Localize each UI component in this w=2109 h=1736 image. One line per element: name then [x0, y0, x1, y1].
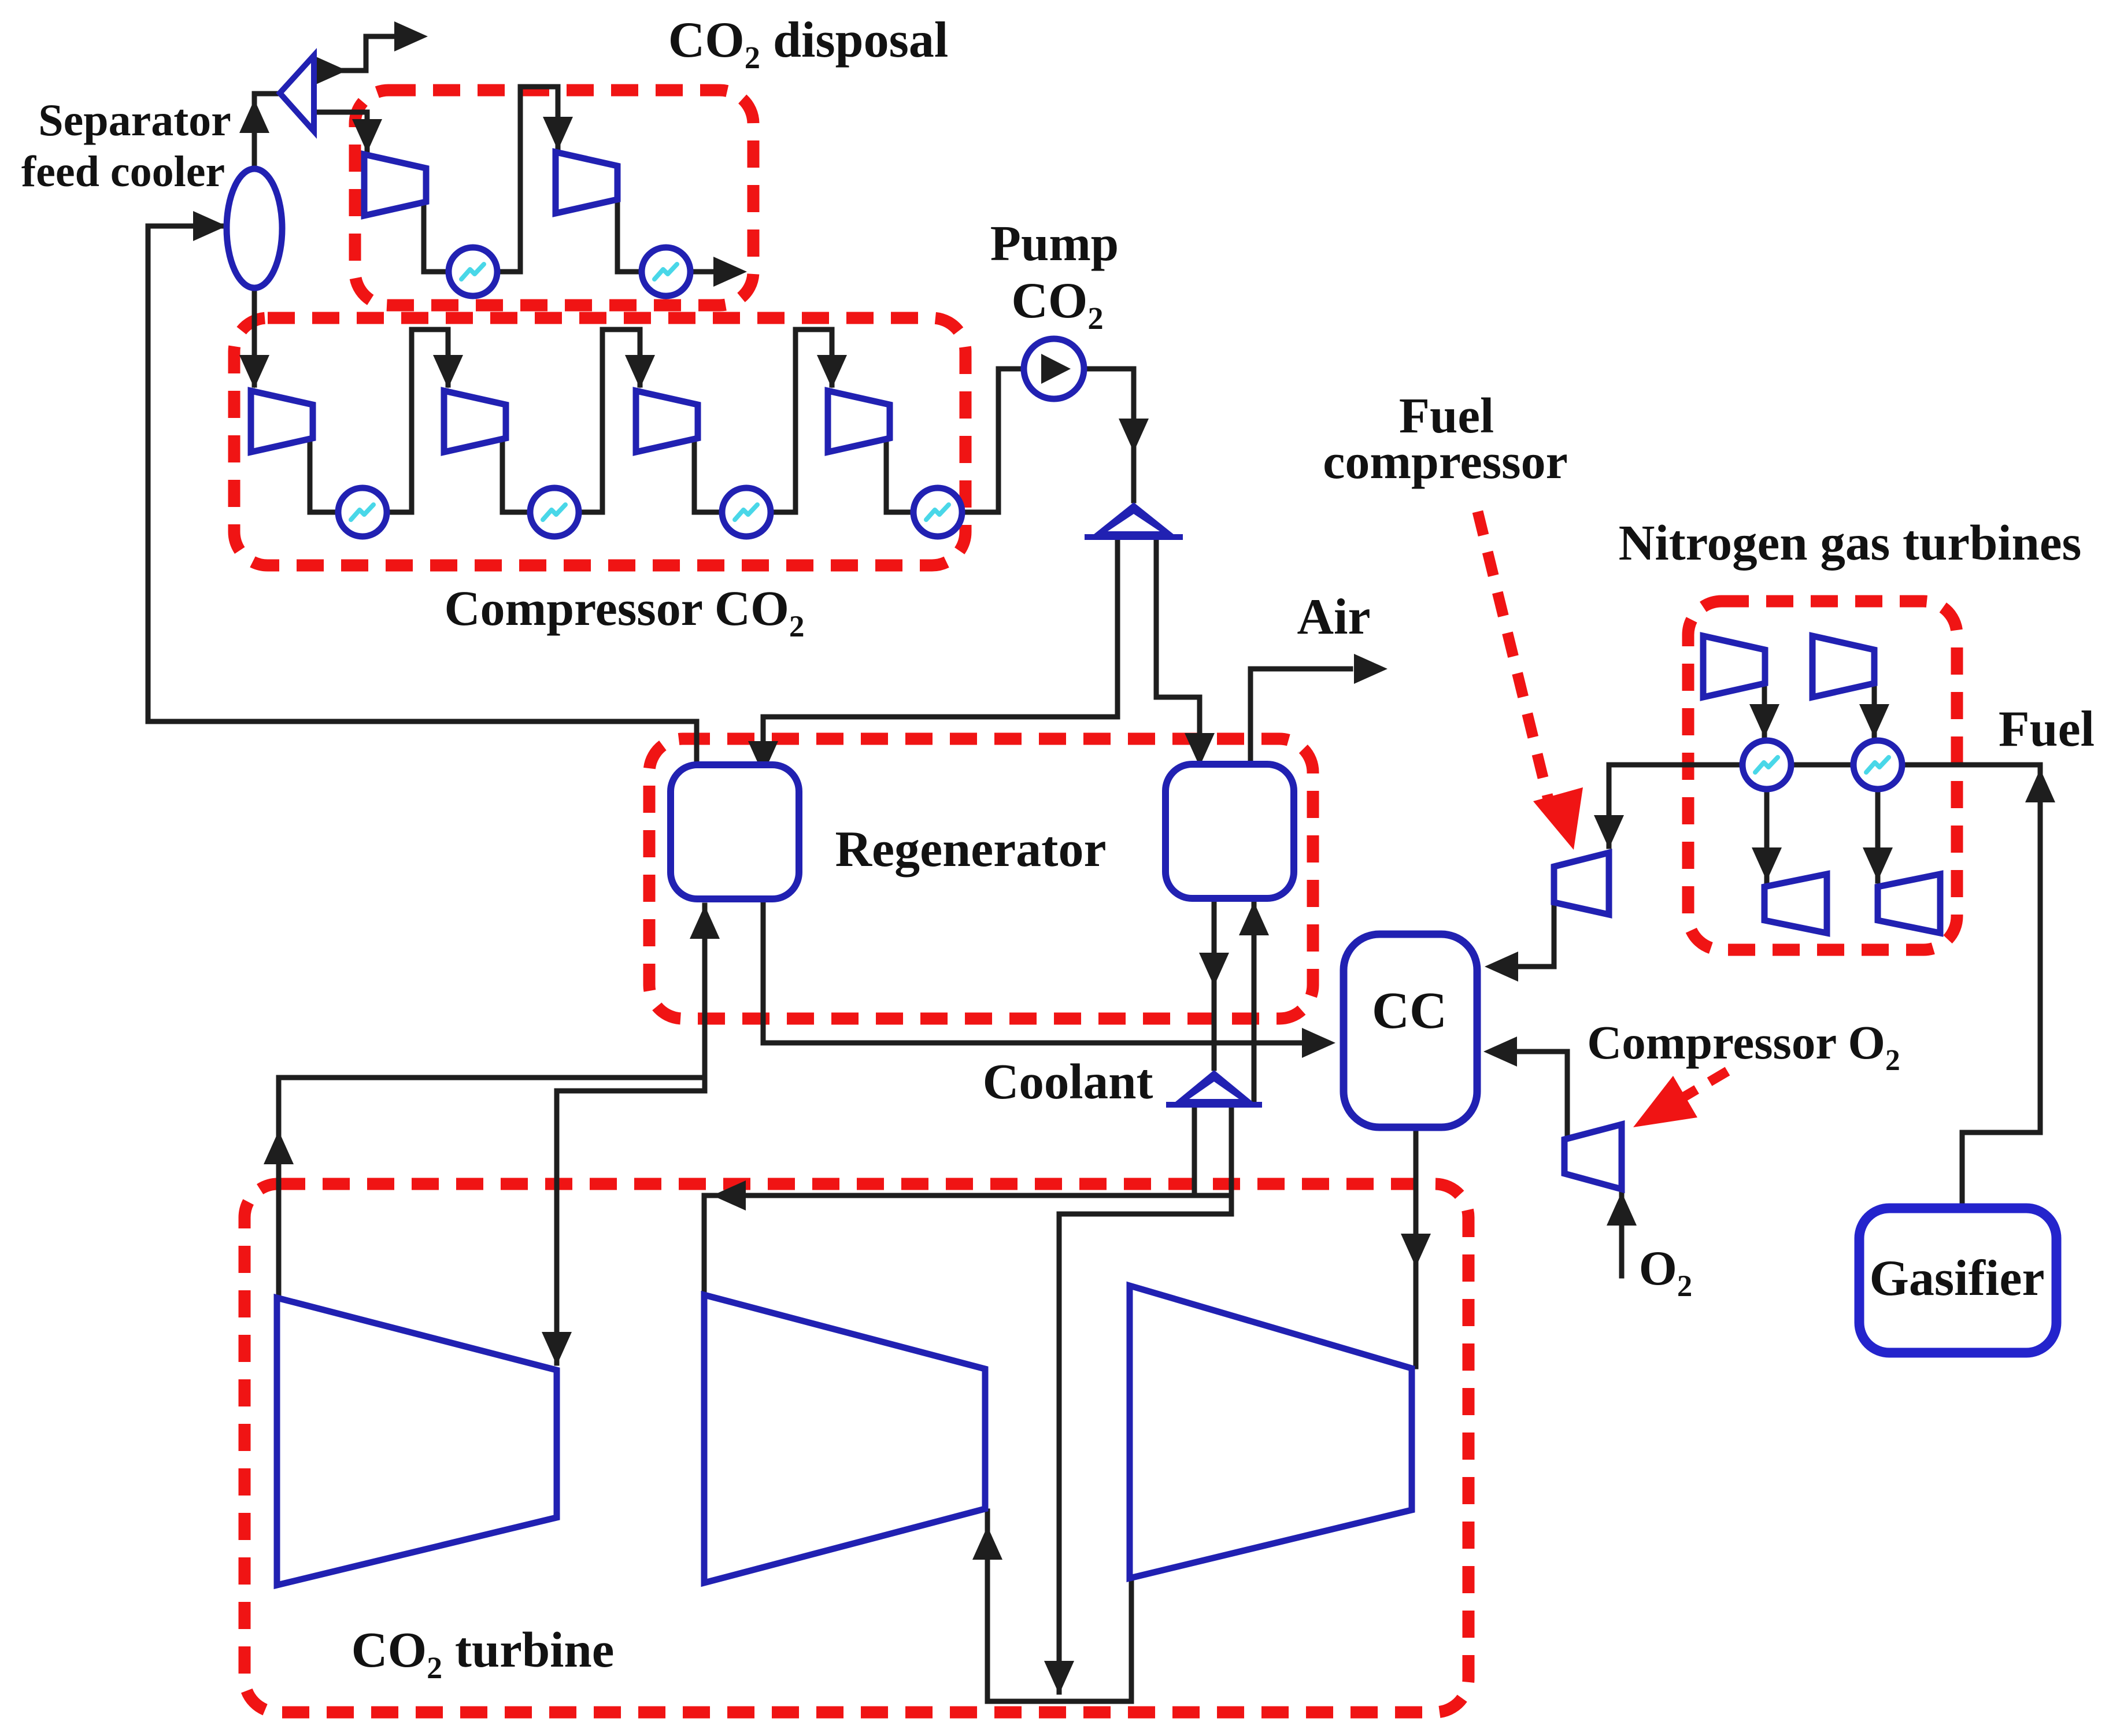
group box: Compressor CO2 — [234, 318, 965, 565]
svg-text:Gasifier: Gasifier — [1869, 1250, 2044, 1306]
wire: K1 discharge to cooler E1 — [424, 201, 448, 272]
arrowhead disposal outlet — [713, 257, 747, 287]
nitrogen compressor N1 — [1703, 636, 1765, 697]
wire: air outlet from regenerator right unit — [1250, 669, 1350, 769]
wire: coolant manifold to turbine T2 top — [704, 1195, 1231, 1294]
wire: C3 discharge to cooler E5 — [694, 437, 721, 512]
wire: disposal outlet — [690, 269, 715, 275]
wire: cooler E6 to pump CO2 — [961, 369, 1023, 512]
cooler E2 — [642, 247, 690, 296]
arrowhead into C1 — [239, 355, 269, 388]
arrowhead into regenerator left unit — [748, 741, 778, 775]
combustion chamber CC — [1344, 934, 1477, 1127]
arrowhead into regenerator right unit — [1185, 733, 1215, 767]
arrowhead into regenerator left unit bottom — [690, 905, 720, 939]
cooler E5 — [722, 488, 771, 536]
annotation arrow: fuel compressor pointer — [1478, 512, 1548, 799]
annotation arrow: O2 compressor pointer — [1677, 1071, 1727, 1101]
wire: gasifier to fuel line riser — [1962, 765, 2040, 1208]
group box: Nitrogen gas turbines — [1688, 601, 1957, 950]
wire: regenerator left unit top to feed line — [148, 721, 697, 778]
svg-text:Nitrogen gas turbines: Nitrogen gas turbines — [1619, 514, 2082, 571]
wire: valve vent line stepped — [314, 36, 394, 71]
wire: bottom manifold — [987, 1699, 1131, 1704]
wire: nitrogen compressor N2 to heater H2 — [1872, 682, 1877, 739]
wire: C2 discharge to cooler E4 — [502, 437, 530, 512]
wire: O2 supply — [1619, 1194, 1625, 1276]
arrowhead into regenerator right unit bottom — [1239, 902, 1269, 935]
wire: riser into turbine T2 bottom — [985, 1511, 990, 1701]
svg-text:CC: CC — [1372, 982, 1447, 1039]
wire: regenerator left unit to combustion chamber — [763, 902, 1300, 1043]
svg-text:CO2 turbine: CO2 turbine — [351, 1622, 615, 1685]
arrowhead on pump discharge — [1119, 419, 1149, 452]
wire: cooler E5 to compressor C4 — [770, 330, 832, 512]
splitter S1 — [1085, 502, 1183, 537]
group box: CO2 disposal — [355, 90, 753, 305]
wire: regenerator to CO2 turbine T1 inlet — [557, 1091, 705, 1363]
wire: fuel line through nitrogen heaters to fuel compressor — [1609, 765, 2040, 846]
arrowhead on vent lower segment — [313, 55, 347, 86]
svg-text:O2: O2 — [1639, 1241, 1692, 1303]
svg-text:Air: Air — [1297, 589, 1370, 645]
svg-text:Regenerator: Regenerator — [835, 821, 1106, 878]
wire: cooler E4 to compressor C3 — [578, 330, 640, 512]
compressor K1 (CO2 disposal) — [364, 154, 426, 216]
svg-text:Coolant: Coolant — [983, 1053, 1153, 1109]
nitrogen compressor N2 — [1812, 636, 1874, 697]
arrowhead into heater H2 — [1859, 704, 1889, 738]
arrowhead into C3 — [625, 355, 655, 388]
separator feed cooler vessel — [227, 169, 282, 288]
wire: separator bottom to compressor C1 — [252, 288, 257, 385]
svg-text:CO2 disposal: CO2 disposal — [668, 12, 949, 75]
wire: fuel compressor to CC — [1520, 904, 1554, 967]
arrowhead into T1 inlet — [542, 1332, 572, 1365]
wire: regenerator right unit bottom to coolant splitter S2 — [1212, 898, 1217, 1068]
svg-text:Fuel: Fuel — [1999, 701, 2095, 757]
compressor C1 — [251, 391, 313, 452]
arrowhead on T1 outlet riser — [264, 1131, 294, 1164]
compressor C4 — [828, 391, 890, 452]
svg-text:CO2: CO2 — [1011, 273, 1103, 336]
svg-text:compressor: compressor — [1323, 434, 1568, 489]
compressor C3 — [636, 391, 698, 452]
nitrogen turbine NT1 — [1764, 874, 1827, 933]
arrowhead into K1 — [352, 119, 382, 153]
wire: turbine T3 bottom drop — [1129, 1580, 1134, 1701]
arrowhead coolant toward T2 — [712, 1180, 746, 1211]
coolant splitter S2 — [1166, 1070, 1262, 1105]
compressor K2 (CO2 disposal) — [556, 152, 617, 213]
svg-text:Separator: Separator — [38, 95, 231, 145]
wire: valve to disposal compressor K1 — [314, 112, 367, 150]
CO2 turbine T1 — [277, 1298, 557, 1585]
arrowhead into C2 — [433, 355, 463, 388]
wire: CC outlet to turbine T3 — [1414, 1127, 1419, 1367]
O2 compressor — [1564, 1124, 1622, 1189]
arrowhead vent outlet — [394, 21, 428, 51]
fuel heater H1 — [1742, 741, 1791, 789]
wire: coolant splitter left leg — [1192, 1105, 1197, 1195]
group box: CO2 turbine — [245, 1184, 1468, 1712]
wire: O2 compressor to CC — [1519, 1052, 1567, 1138]
svg-text:feed cooler: feed cooler — [21, 147, 225, 196]
arrowhead into NT1 — [1752, 847, 1782, 881]
arrowhead coolant drop — [1044, 1661, 1074, 1694]
arrowhead into CC left — [1302, 1028, 1335, 1058]
wire: K2 discharge to cooler E2 — [617, 199, 641, 272]
arrowhead CC outlet — [1401, 1234, 1431, 1267]
cooler E6 — [913, 488, 962, 536]
arrowhead into fuel compressor — [1594, 815, 1624, 849]
wire: riser into regenerator left unit bottom — [702, 905, 708, 1091]
arrowhead into K2 — [543, 117, 573, 150]
annotation arrowhead: fuel compressor pointer — [1533, 787, 1583, 850]
wire: cooler E3 to compressor C2 — [386, 330, 448, 512]
cooler E1 — [449, 247, 497, 296]
nitrogen turbine NT2 — [1878, 874, 1940, 933]
arrowhead into T2 bottom — [972, 1526, 1002, 1560]
cooler E3 — [338, 488, 387, 536]
wire: C1 discharge to cooler E3 — [310, 437, 338, 512]
wire: splitter S2 to regenerator right unit bottom — [1252, 903, 1257, 1103]
arrowhead into heater H1 — [1749, 704, 1779, 738]
wire: heater H2 to nitrogen turbine NT2 — [1875, 789, 1881, 881]
svg-text:Pump: Pump — [990, 215, 1119, 271]
wire: splitter S1 right leg to regenerator right unit — [1156, 537, 1200, 764]
wire: CO2 turbine T1 outlet riser — [279, 1078, 705, 1298]
svg-text:Compressor CO2: Compressor CO2 — [444, 580, 804, 643]
wire: separator top to relief valve — [254, 94, 277, 169]
arrowhead into separator — [193, 211, 227, 241]
arrowhead to splitter S2 — [1199, 953, 1229, 986]
regenerator right unit — [1165, 764, 1294, 898]
CO2 turbine T2 — [704, 1295, 985, 1583]
wire: nitrogen compressor N1 to heater H1 — [1762, 682, 1767, 739]
CO2 turbine T3 — [1130, 1286, 1412, 1578]
wire: C4 discharge to cooler E6 — [886, 437, 913, 512]
gasifier — [1859, 1208, 2056, 1353]
fuel heater H2 — [1853, 741, 1902, 789]
wire: splitter S1 left leg to regenerator left unit — [763, 537, 1118, 772]
arrowhead fuel into CC — [1485, 952, 1518, 982]
regenerator left unit — [671, 765, 799, 899]
cooler E4 — [530, 488, 579, 536]
arrowhead O2 into CC — [1483, 1037, 1517, 1067]
arrowhead fuel riser — [2025, 769, 2055, 802]
relief valve triangle — [280, 55, 314, 131]
arrowhead air outlet — [1354, 654, 1387, 684]
wire: pump discharge to splitter S1 — [1084, 369, 1134, 501]
wire: coolant splitter right leg drop — [1059, 1105, 1231, 1692]
wire: cooler E1 to disposal compressor K2 — [497, 87, 558, 272]
fuel compressor — [1554, 853, 1609, 915]
arrowhead into NT2 — [1863, 847, 1893, 881]
wire: regenerator to separator feed — [148, 226, 224, 721]
compressor C2 — [444, 391, 506, 452]
arrowhead O2 into compressor — [1607, 1192, 1637, 1226]
wire: heater H1 to nitrogen turbine NT1 — [1764, 789, 1770, 881]
arrowhead up to valve — [239, 99, 269, 133]
pump CO2 — [1024, 339, 1084, 399]
svg-text:Compressor O2: Compressor O2 — [1587, 1016, 1900, 1077]
arrowhead into C4 — [817, 355, 847, 388]
group box: Regenerator — [649, 739, 1313, 1019]
annotation arrowhead: O2 compressor pointer — [1633, 1076, 1697, 1127]
